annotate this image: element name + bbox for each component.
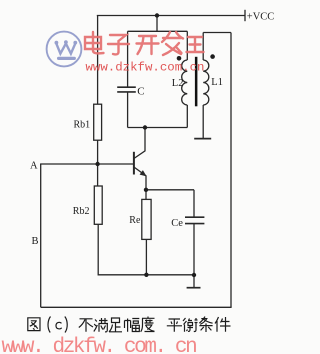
polarity dot L1 <box>210 54 215 59</box>
polarity dot L2 <box>177 56 182 61</box>
wire tank bottom <box>128 127 188 129</box>
transistor Q1 base bar <box>133 152 135 175</box>
王 <box>187 37 204 52</box>
junction collector/tank bottom <box>143 125 147 129</box>
caption ） <box>65 317 67 333</box>
wire L1 bottom <box>202 105 204 138</box>
node +VCC terminal tick <box>244 10 246 21</box>
wire Rb1 top <box>97 16 99 105</box>
wire Rb1 bottom to base node <box>97 140 99 164</box>
wire base / node A line <box>40 163 134 165</box>
wire L2 top <box>186 31 188 60</box>
svg-text:Re: Re <box>129 215 141 226</box>
svg-text:+VCC: +VCC <box>247 12 275 23</box>
caption 不 <box>79 319 93 332</box>
junction emitter/Ce <box>144 188 148 192</box>
transformer core <box>195 57 198 107</box>
caption 衡 <box>183 318 198 332</box>
svg-text:www.dzkfw.com.cn: www.dzkfw.com.cn <box>86 61 205 75</box>
resistor Re <box>142 199 151 239</box>
caption 平 <box>167 319 182 332</box>
svg-text:C: C <box>137 86 144 98</box>
watermark logo circle W <box>47 32 82 67</box>
wire drop from VCC rail to tank top <box>156 16 158 32</box>
watermark text 电子开发王 (red) <box>85 32 204 55</box>
wire L2 bottom <box>186 105 188 128</box>
电 <box>85 32 104 53</box>
capacitor Ce <box>185 217 204 223</box>
wire left edge feedback <box>40 164 42 307</box>
子 <box>108 35 129 54</box>
caption 件 <box>215 317 231 332</box>
caption c <box>56 322 62 329</box>
capacitor C <box>117 87 136 92</box>
svg-text:Rb2: Rb2 <box>73 206 90 217</box>
resistor Rb1 <box>94 104 102 140</box>
caption 幅 <box>125 319 140 332</box>
wire emitter node to Ce <box>146 189 194 191</box>
wire C bottom <box>127 92 129 128</box>
caption 条 <box>199 317 212 332</box>
junction base/Rb divider <box>95 162 99 166</box>
发 <box>162 32 183 55</box>
svg-text:Rb1: Rb1 <box>74 119 91 130</box>
wire tank left (to capacitor C) <box>127 31 129 87</box>
wire Ce top <box>193 190 195 217</box>
caption 满 <box>94 318 108 332</box>
inductor L1 winding <box>203 60 209 105</box>
transistor Q1 collector <box>134 128 145 159</box>
junction Re bottom <box>144 273 148 277</box>
wire Rb2 bottom <box>98 224 194 274</box>
svg-text:Ce: Ce <box>171 218 183 229</box>
svg-text:B: B <box>32 236 39 247</box>
wire bottom edge feedback <box>41 306 232 308</box>
开 <box>137 36 159 54</box>
wire right edge feedback <box>230 33 232 308</box>
caption （ <box>48 317 50 333</box>
wire tank top <box>128 30 188 32</box>
wire top-right feedback <box>203 32 231 34</box>
wire L1 top riser <box>202 33 204 61</box>
caption 足 <box>109 318 122 332</box>
svg-text:L2: L2 <box>172 78 184 89</box>
svg-text:L1: L1 <box>211 77 223 88</box>
wire Re bottom <box>145 239 147 274</box>
junction VCC/tank <box>155 13 159 17</box>
transistor Q1 emitter arrowhead <box>140 170 147 176</box>
ground main (under Ce node) <box>187 275 201 288</box>
caption 度 <box>141 317 155 332</box>
caption 图 <box>28 318 40 331</box>
junction Ce bottom / ground <box>192 273 196 277</box>
transistor Q1 emitter <box>134 167 146 199</box>
wire base node to Rb2 <box>97 164 99 186</box>
wire VCC rail top <box>97 15 245 17</box>
inductor L2 winding <box>182 60 188 105</box>
svg-text:www. dzkfw. com. cn: www. dzkfw. com. cn <box>2 336 197 354</box>
ground under L1 <box>194 138 211 140</box>
resistor Rb2 <box>94 186 102 224</box>
wire Ce bottom <box>193 224 195 275</box>
svg-text:A: A <box>30 161 38 172</box>
